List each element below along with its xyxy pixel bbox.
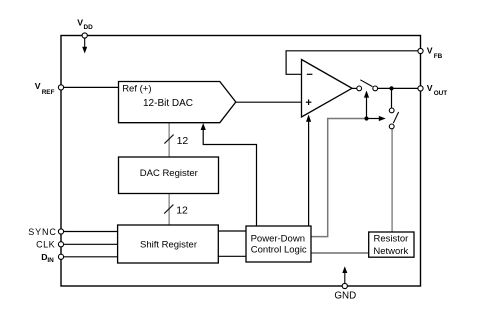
Power-Down Control Logic block: [246, 226, 311, 262]
pin VOUT: [418, 86, 423, 91]
wire DAC output to op-amp non-inverting input: [236, 101, 302, 103]
wire feedback VFB to op-amp inverting input: [286, 51, 420, 75]
wire op-amp output to switch: [352, 87, 357, 89]
bus DAC to DAC Register: [168, 123, 170, 157]
wire SW2 to Resistor Network: [391, 129, 393, 232]
svg-text:Power-Down: Power-Down: [251, 233, 305, 244]
svg-text:12-Bit DAC: 12-Bit DAC: [143, 98, 193, 109]
wire Power-Down to op-amp (arrow up): [308, 122, 310, 227]
IC boundary: [61, 36, 421, 287]
svg-text:Resistor: Resistor: [373, 233, 408, 244]
op-amp A1: [302, 60, 353, 118]
svg-text:Control Logic: Control Logic: [251, 244, 307, 255]
svg-text:Network: Network: [373, 246, 408, 257]
bus slash 12 (lower): [164, 205, 173, 214]
switch SW1 (op-amp output): [357, 86, 362, 91]
wire VREF to DAC: [61, 86, 119, 88]
svg-text:OUT: OUT: [434, 90, 448, 97]
svg-text:DAC Register: DAC Register: [140, 168, 198, 179]
pin CLK: [58, 242, 63, 247]
svg-text:Shift Register: Shift Register: [140, 240, 197, 251]
svg-text:V: V: [35, 81, 41, 91]
DAC Register block: [119, 157, 219, 194]
pin VFB: [418, 48, 423, 53]
wire switch to VOUT: [378, 87, 421, 89]
svg-text:IN: IN: [47, 257, 54, 264]
Resistor Network block: [369, 232, 414, 257]
pin VREF: [58, 85, 63, 90]
svg-text:DD: DD: [84, 24, 94, 31]
svg-text:SYNC: SYNC: [28, 227, 57, 237]
op-amp minus sign: [307, 73, 313, 75]
svg-text:GND: GND: [334, 290, 356, 301]
wire DIN to Shift Register: [61, 256, 118, 258]
svg-text:12: 12: [176, 205, 188, 217]
svg-text:CLK: CLK: [36, 240, 55, 250]
svg-text:FB: FB: [434, 53, 443, 60]
op-amp plus sign: [306, 101, 312, 103]
pin VDD: [82, 33, 87, 38]
wire CLK to Shift Register: [61, 243, 118, 245]
bus slash 12 (upper): [164, 135, 173, 144]
wire Power-Down to Resistor Network: [311, 252, 369, 254]
Shift Register block: [118, 225, 219, 263]
wire Shift Register to Power-Down (lower): [218, 255, 246, 257]
wire Shift Register to Power-Down (upper): [218, 230, 246, 232]
svg-text:Ref (+): Ref (+): [122, 84, 151, 95]
wire switch control vertical arrow: [366, 97, 368, 119]
DAC block: [119, 82, 236, 123]
switch SW2 (to resistor network): [389, 108, 394, 113]
wire switch control horizontal arrow: [367, 118, 382, 120]
svg-text:V: V: [427, 83, 433, 93]
wire Power-Down to DAC (power-down control, arrow up): [203, 127, 256, 227]
wire SYNC to Shift Register: [61, 231, 118, 233]
bus DAC Register to Shift Register: [168, 194, 170, 226]
pin DIN: [58, 254, 63, 259]
svg-text:V: V: [77, 17, 83, 27]
svg-text:12: 12: [177, 135, 189, 147]
wire Power-Down to switch control (L-shaped): [311, 119, 367, 237]
svg-text:REF: REF: [42, 89, 55, 96]
pin GND: [342, 283, 347, 288]
pin SYNC: [58, 229, 63, 234]
wire junction down to switch SW2: [391, 88, 393, 108]
svg-text:V: V: [427, 46, 433, 56]
junction on VOUT wire: [389, 86, 393, 90]
junction on switch control: [364, 116, 368, 120]
